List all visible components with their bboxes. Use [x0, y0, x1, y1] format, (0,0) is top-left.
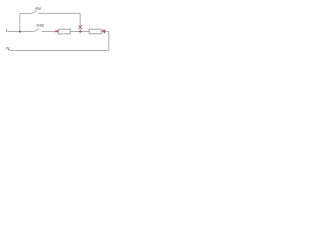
- wire R2 to right corner: [101, 31, 109, 33]
- wire bottom N return: [9, 50, 109, 52]
- wire L to switch Jobb: [8, 31, 33, 33]
- junction node A: [19, 31, 21, 33]
- error marker X on vertical wire: [78, 25, 82, 29]
- switch Bal blade: [31, 11, 37, 14]
- wire switch Jobb to resistor R1: [42, 31, 59, 33]
- marker pin left of R1: [55, 30, 58, 32]
- wire top horizontal right: [38, 12, 80, 14]
- pin dot right of R2: [104, 32, 106, 34]
- wire right vertical down: [108, 32, 110, 51]
- wire top horizontal left: [20, 12, 31, 14]
- svg-text:Bal: Bal: [35, 6, 41, 10]
- wire left vertical branch: [19, 13, 21, 31]
- resistor R1: [58, 29, 70, 34]
- svg-text:N: N: [6, 46, 10, 51]
- junction node B: [79, 31, 81, 33]
- switch Jobb blade: [33, 29, 40, 32]
- wire R1 to R2: [70, 31, 89, 33]
- resistor R2: [89, 29, 101, 34]
- marker pin right of R2: [102, 30, 105, 33]
- svg-text:Jobb: Jobb: [35, 23, 45, 28]
- wire right vertical of top branch: [79, 13, 81, 31]
